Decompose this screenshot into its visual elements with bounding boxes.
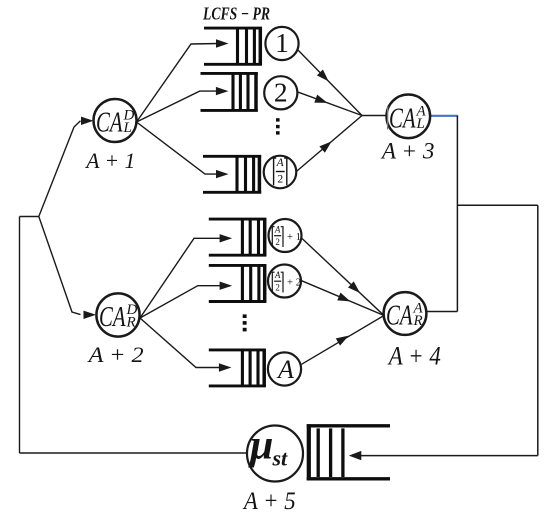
svg-text:A + 4: A + 4 — [387, 342, 441, 371]
wire CA_L^D to queue1 — [137, 44, 220, 123]
arrowhead on wire circleA-CA_R^A — [336, 332, 351, 346]
node server 1 circle — [265, 27, 298, 60]
svg-text:2: 2 — [275, 237, 280, 247]
svg-text:2: 2 — [277, 173, 283, 185]
arrowhead on wire circleA22-CA_R^A — [337, 293, 352, 306]
svg-text:R: R — [126, 315, 136, 331]
wire fork to CA_L^D — [39, 121, 81, 217]
wire bottom feedback to mu_st — [20, 452, 248, 454]
queue 4 — [209, 218, 266, 256]
node CA_L^A circle — [387, 95, 431, 139]
svg-text:R: R — [413, 313, 423, 329]
arrowhead on wire circleA21-CA_R^A — [348, 281, 363, 296]
svg-text:st: st — [272, 446, 289, 471]
arrowhead on wire circle2-J1 — [314, 95, 329, 107]
queue 2 — [201, 72, 258, 111]
svg-text:L: L — [123, 120, 132, 136]
queue 7 (stabilizer, open right) — [307, 424, 390, 480]
wire fork to CA_R^D — [39, 217, 81, 315]
label CA_R^A text — [386, 301, 424, 332]
svg-text:2: 2 — [296, 277, 301, 288]
queue 1 — [204, 27, 262, 66]
wire bottom return to queue7 — [360, 455, 538, 457]
wire circleA2 to junction J1 — [294, 116, 362, 174]
svg-text:1: 1 — [296, 232, 301, 243]
wire circleA to CA_R^A — [302, 316, 385, 365]
arrowhead on wire circleA2-J1 — [319, 138, 334, 153]
wire branch right at y205 — [457, 204, 537, 206]
node CA_R^A circle — [384, 292, 427, 335]
wire blue CA_L^A output — [430, 115, 459, 117]
dots bottom group — [243, 314, 247, 331]
svg-text:A: A — [276, 157, 285, 169]
wire CA_L^D to queue3 — [137, 122, 220, 174]
svg-text:LCFS − PR: LCFS − PR — [202, 4, 270, 24]
wire CA_R^D to queue4 — [140, 238, 223, 318]
wire far right vertical — [537, 205, 539, 455]
wire CA_L^D to queue2 — [137, 91, 220, 122]
svg-text:A + 5: A + 5 — [242, 486, 295, 515]
node CA_R^D circle — [96, 293, 139, 336]
wire junction J1 to CA_L^A — [362, 115, 390, 117]
arrowhead into CA_L^D — [81, 117, 94, 125]
wire left feedback vertical — [19, 217, 21, 454]
svg-text:1: 1 — [275, 27, 289, 58]
node server ceilA2plus2 circle — [268, 265, 301, 298]
label ceil(A/2)+1 — [272, 225, 301, 248]
node server ceilA2plus1 circle — [269, 219, 302, 252]
label ceil(A/2) fraction — [274, 157, 287, 186]
wire CA_R^A output — [427, 311, 457, 313]
queue 3 — [203, 155, 261, 193]
wire CA_R^D to queue6 — [140, 318, 222, 368]
svg-text:CA: CA — [99, 302, 126, 333]
label ceil(A/2)+2 — [272, 270, 301, 293]
label mu_st — [248, 423, 288, 471]
svg-text:A: A — [276, 355, 294, 384]
wire circleA22 to CA_R^A — [302, 281, 385, 316]
arrowhead into queue6 — [219, 363, 232, 371]
svg-text:A: A — [274, 225, 281, 235]
cursor artifact tick at CA_L^A — [387, 106, 389, 130]
label CA_R^D text — [99, 302, 138, 333]
wire circle1 to junction J1 — [296, 48, 362, 116]
svg-text:A + 3: A + 3 — [380, 139, 435, 164]
wire left feedback horizontal top — [20, 216, 39, 218]
svg-text:μ: μ — [248, 423, 273, 469]
svg-text:A + 2: A + 2 — [86, 342, 143, 367]
svg-text:A: A — [274, 270, 281, 280]
node server 2 circle — [264, 76, 297, 109]
svg-text:2: 2 — [274, 76, 288, 107]
svg-text:+: + — [287, 277, 293, 288]
svg-text:CA: CA — [96, 108, 123, 139]
arrowhead into CA_R^D — [84, 311, 97, 319]
svg-text:2: 2 — [275, 283, 280, 293]
arrowhead into queue4 — [220, 234, 233, 242]
node mu_st circle — [247, 426, 303, 482]
queue 6 — [209, 349, 266, 387]
label CA_L^D text — [96, 108, 135, 139]
arrowhead on wire circle1-J1 — [317, 69, 332, 84]
svg-text:A + 1: A + 1 — [84, 148, 135, 173]
svg-text:CA: CA — [389, 104, 416, 135]
node server ceilA2 circle — [264, 156, 297, 189]
svg-text:CA: CA — [386, 301, 413, 332]
queue 5 — [209, 264, 266, 302]
wire circle2 to junction J1 — [295, 91, 363, 116]
svg-text:L: L — [416, 116, 425, 132]
node CA_L^D circle — [94, 99, 137, 142]
node server A circle — [268, 352, 301, 385]
label CA_L^A text — [389, 104, 427, 135]
arrowhead into queue2 — [216, 87, 229, 95]
dots top group — [276, 118, 280, 134]
arrowhead into queue1 — [216, 39, 229, 47]
arrowhead into queue7 (left pointing) — [349, 451, 362, 460]
arrowhead into queue3 — [216, 170, 229, 178]
wire circleA21 to CA_R^A — [302, 238, 385, 316]
svg-text:+: + — [287, 232, 293, 243]
wire right vertical from CA_L^A — [456, 116, 458, 312]
wire CA_R^D to queue5 — [140, 286, 223, 318]
arrowhead into queue5 — [220, 282, 233, 290]
